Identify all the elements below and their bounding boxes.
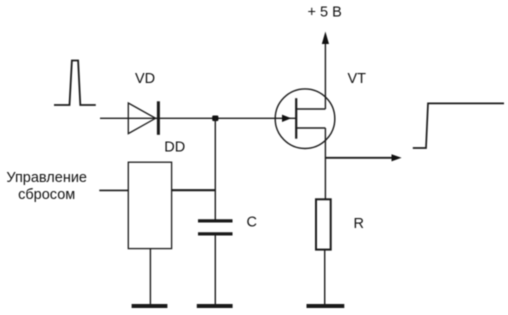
svg-text:R: R: [354, 216, 364, 232]
svg-text:C: C: [247, 215, 257, 231]
svg-text:VD: VD: [135, 71, 155, 87]
svg-text:+ 5 В: + 5 В: [308, 5, 342, 21]
svg-text:DD: DD: [164, 140, 185, 156]
svg-text:VT: VT: [348, 71, 367, 87]
svg-text:Управление: Управление: [6, 170, 87, 186]
svg-text:сбросом: сбросом: [18, 187, 75, 203]
